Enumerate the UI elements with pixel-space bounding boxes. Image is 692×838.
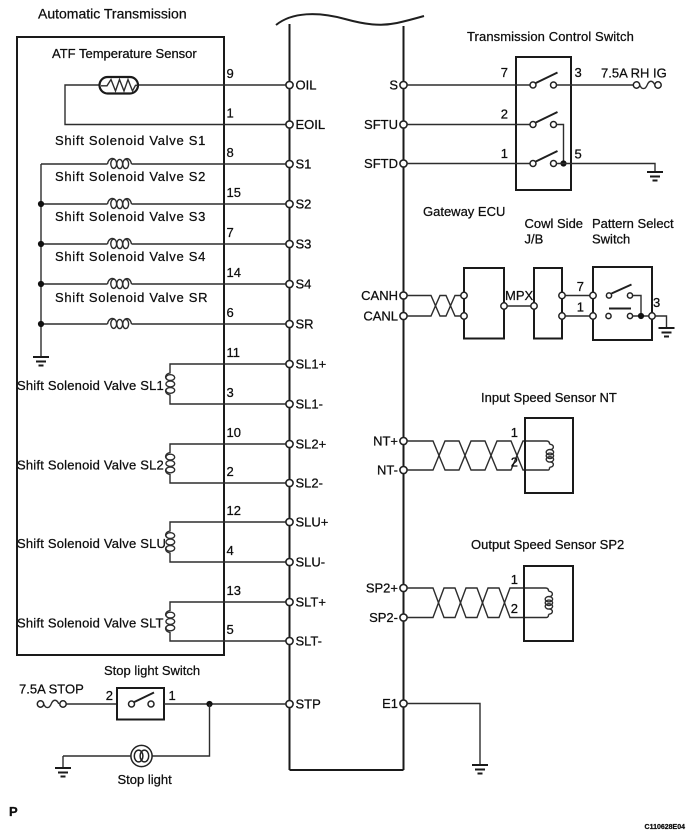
- svg-text:7: 7: [577, 279, 584, 294]
- svg-text:Stop light: Stop light: [118, 772, 173, 787]
- terminal SL2-: [286, 476, 323, 491]
- svg-text:Stop light Switch: Stop light Switch: [104, 663, 200, 678]
- svg-text:Switch: Switch: [592, 232, 630, 247]
- Output speed sensor SP2 box: [524, 566, 573, 641]
- svg-text:2: 2: [511, 455, 518, 470]
- Cowl Side J/B terminal (MPX in): [531, 303, 537, 309]
- svg-text:S1: S1: [296, 157, 312, 172]
- svg-text:11: 11: [227, 345, 241, 360]
- terminal SLU+: [286, 515, 328, 530]
- terminal SLU-: [286, 555, 325, 570]
- pattern select switch contact row 1 right: [627, 293, 632, 298]
- svg-text:SFTD: SFTD: [364, 156, 398, 171]
- solenoid coil S1 and wire to terminal S1: [41, 159, 286, 169]
- svg-text:OIL: OIL: [296, 78, 317, 93]
- svg-text:S4: S4: [296, 277, 312, 292]
- terminal SL1-: [286, 397, 323, 412]
- terminal SFTD: [364, 156, 407, 171]
- stop light bulb: [131, 745, 152, 766]
- wire: row2 contact to pin 3 terminal: [633, 315, 649, 317]
- terminal NT-: [377, 463, 407, 478]
- Cowl Side J/B terminal upper right: [559, 292, 565, 298]
- wire: junction down to stop light: [152, 704, 210, 756]
- svg-text:SL2-: SL2-: [296, 476, 323, 491]
- Automatic Transmission enclosure box: [17, 37, 224, 655]
- svg-text:SR: SR: [296, 317, 314, 332]
- svg-text:Shift Solenoid Valve S2: Shift Solenoid Valve S2: [55, 169, 206, 184]
- svg-text:SL2+: SL2+: [296, 437, 327, 452]
- wire: SFTU contact link down to SFTD row: [557, 125, 564, 164]
- label: Cowl Side J/B: [525, 216, 584, 247]
- wire: switch pin 5 to ground: [557, 164, 656, 172]
- svg-text:Automatic Transmission: Automatic Transmission: [38, 6, 187, 22]
- junction on ground bus at y=284: [38, 281, 44, 287]
- solenoid coil SLT with loop wires: [166, 602, 286, 641]
- svg-text:7.5A STOP: 7.5A STOP: [19, 682, 84, 697]
- wire: solenoid common ground bus: [40, 164, 42, 357]
- terminal SR: [286, 317, 314, 332]
- svg-text:Pattern Select: Pattern Select: [592, 216, 674, 231]
- svg-text:12: 12: [227, 503, 241, 518]
- pattern select switch terminal pin 7: [590, 292, 596, 298]
- ground: stop light: [55, 756, 71, 777]
- svg-text:S2: S2: [296, 197, 312, 212]
- svg-text:SL1-: SL1-: [296, 397, 323, 412]
- svg-text:Shift Solenoid Valve SLU: Shift Solenoid Valve SLU: [17, 536, 166, 551]
- wire: stop light to ground: [63, 755, 131, 757]
- svg-text:7.5A RH IG: 7.5A RH IG: [601, 66, 667, 81]
- svg-text:3: 3: [653, 295, 660, 310]
- terminal NT+: [373, 434, 407, 449]
- svg-text:Shift Solenoid Valve SR: Shift Solenoid Valve SR: [55, 290, 208, 305]
- Gateway ECU terminal (CANL): [461, 313, 467, 319]
- svg-text:5: 5: [227, 622, 234, 637]
- wire: SFTD to switch pin 1: [407, 163, 530, 165]
- terminal E1: [382, 696, 407, 711]
- svg-text:6: 6: [227, 305, 234, 320]
- switch contacts row 3: [530, 161, 536, 167]
- wire: fuse to stop light switch: [66, 703, 117, 705]
- wire: SFTU to switch pin 2: [407, 124, 530, 126]
- Cowl Side J/B box: [534, 268, 562, 339]
- svg-text:E1: E1: [382, 696, 398, 711]
- terminal CANL: [363, 309, 407, 324]
- svg-text:SLT-: SLT-: [296, 634, 323, 649]
- svg-text:CANH: CANH: [361, 288, 398, 303]
- pattern select switch contact row 2 right: [627, 313, 632, 318]
- Transmission Control Switch box: [516, 57, 571, 190]
- svg-text:S: S: [389, 78, 398, 93]
- svg-text:Shift Solenoid Valve S3: Shift Solenoid Valve S3: [55, 209, 206, 224]
- svg-text:MPX: MPX: [505, 288, 534, 303]
- NT sensor pickup coil: [546, 444, 553, 467]
- terminal CANH: [361, 288, 407, 303]
- wire: NT+ twisted pair: [407, 441, 550, 470]
- svg-text:SP2-: SP2-: [369, 610, 398, 625]
- terminal SFTU: [364, 117, 407, 132]
- ECU bottom edge wire: [290, 769, 404, 771]
- terminal S2: [286, 197, 312, 212]
- svg-text:ATF Temperature Sensor: ATF Temperature Sensor: [52, 46, 197, 61]
- thermistor (ATF temperature sensor element): [100, 77, 139, 94]
- svg-text:15: 15: [227, 185, 241, 200]
- svg-text:1: 1: [501, 146, 508, 161]
- svg-text:SFTU: SFTU: [364, 117, 398, 132]
- svg-text:Shift Solenoid Valve SLT: Shift Solenoid Valve SLT: [17, 616, 164, 631]
- stop light switch contacts: [129, 701, 135, 707]
- svg-text:Transmission Control Switch: Transmission Control Switch: [467, 29, 634, 44]
- terminal SP2-: [369, 610, 407, 625]
- svg-text:3: 3: [575, 65, 582, 80]
- svg-text:2: 2: [511, 601, 518, 616]
- svg-text:7: 7: [501, 65, 508, 80]
- wire: stop light switch to STP terminal: [164, 703, 286, 705]
- svg-text:3: 3: [227, 385, 234, 400]
- terminal SL2+: [286, 437, 326, 452]
- junction on ground bus at y=244: [38, 241, 44, 247]
- solenoid coil S4 and wire to terminal S4: [41, 279, 286, 289]
- junction on ground bus at y=324: [38, 321, 44, 327]
- ground: transmission control switch: [647, 172, 663, 181]
- svg-text:Gateway ECU: Gateway ECU: [423, 204, 505, 219]
- Gateway ECU box: [464, 268, 504, 339]
- junction: stop light tap: [206, 701, 212, 707]
- svg-text:Shift Solenoid Valve S1: Shift Solenoid Valve S1: [55, 133, 206, 148]
- svg-text:J/B: J/B: [525, 232, 544, 247]
- svg-text:C110628E04: C110628E04: [645, 824, 686, 831]
- svg-text:CANL: CANL: [363, 309, 398, 324]
- svg-text:Cowl Side: Cowl Side: [525, 216, 584, 231]
- svg-text:SLT+: SLT+: [296, 595, 326, 610]
- wire: switch pin 3 to fuse: [557, 84, 634, 86]
- switch contacts row 2: [530, 122, 536, 128]
- svg-text:NT+: NT+: [373, 434, 398, 449]
- svg-text:Shift Solenoid Valve SL1: Shift Solenoid Valve SL1: [17, 378, 164, 393]
- terminal S3: [286, 237, 312, 252]
- svg-text:P: P: [9, 804, 18, 819]
- ground: solenoid bus ground: [33, 357, 49, 366]
- Stop light switch box: [117, 688, 164, 720]
- svg-text:SLU+: SLU+: [296, 515, 329, 530]
- wire: CANH twisted pair: [407, 296, 461, 317]
- wire: thermistor to OIL terminal: [138, 84, 286, 86]
- label: Pattern Select Switch: [592, 216, 674, 247]
- svg-text:8: 8: [227, 145, 234, 160]
- switch contacts row 1: [530, 82, 536, 88]
- terminal SLT+: [286, 595, 326, 610]
- junction at switch pin 5: [560, 160, 566, 166]
- pattern select switch blade row 1: [612, 285, 632, 294]
- wire: cowl J/B to pattern select switch pin 1: [565, 315, 590, 317]
- svg-text:NT-: NT-: [377, 463, 398, 478]
- solenoid coil SLU with loop wires: [166, 522, 286, 562]
- svg-text:2: 2: [106, 688, 113, 703]
- svg-text:2: 2: [501, 107, 508, 122]
- svg-text:1: 1: [169, 688, 176, 703]
- svg-text:7: 7: [227, 225, 234, 240]
- wire: pattern select pin 3 to ground: [655, 316, 666, 328]
- svg-text:EOIL: EOIL: [296, 117, 326, 132]
- wire: CANL twisted pair: [407, 296, 461, 317]
- terminal S1: [286, 157, 312, 172]
- svg-text:5: 5: [575, 147, 582, 162]
- solenoid coil SL2 with loop wires: [166, 444, 286, 483]
- pattern select switch contact row 2 left: [606, 313, 611, 318]
- svg-text:4: 4: [227, 543, 234, 558]
- fuse 7.5A STOP: [37, 700, 66, 707]
- Gateway ECU terminal (MPX out): [501, 303, 507, 309]
- svg-text:Shift Solenoid Valve SL2: Shift Solenoid Valve SL2: [17, 458, 164, 473]
- terminal EOIL: [286, 117, 325, 132]
- svg-text:1: 1: [511, 572, 518, 587]
- Gateway ECU terminal (CANH): [461, 292, 467, 298]
- svg-text:SLU-: SLU-: [296, 555, 326, 570]
- wire: row1 contact link down to row 2: [633, 296, 641, 317]
- wire: NT- twisted pair: [407, 441, 550, 470]
- switch blade row 2: [536, 112, 558, 123]
- switch blade row 3: [536, 151, 558, 162]
- pattern select switch terminal pin 3: [649, 313, 655, 319]
- svg-text:SL1+: SL1+: [296, 357, 327, 372]
- svg-text:S3: S3: [296, 237, 312, 252]
- ground: E1: [472, 765, 488, 774]
- wire: thermistor loop to EOIL terminal: [65, 85, 286, 125]
- solenoid coil SL1 with loop wires: [166, 364, 286, 404]
- switch blade row 1: [536, 73, 558, 84]
- wire: SP2- twisted pair: [407, 588, 549, 618]
- pattern select switch blade row 2 (open, horizontal): [609, 308, 631, 310]
- wire: S to switch pin 7: [407, 84, 530, 86]
- pattern select switch contact row 1 left: [606, 293, 611, 298]
- junction at pattern select pin 3: [638, 313, 644, 319]
- terminal SLT-: [286, 634, 322, 649]
- SP2 sensor pickup coil: [545, 591, 552, 614]
- wire: cowl J/B to pattern select switch pin 7: [565, 295, 590, 297]
- solenoid coil SR and wire to terminal SR: [41, 319, 286, 329]
- svg-text:13: 13: [227, 583, 241, 598]
- pattern select switch terminal pin 1: [590, 313, 596, 319]
- fuse 7.5A RH IG: [633, 81, 661, 88]
- svg-text:Shift Solenoid Valve S4: Shift Solenoid Valve S4: [55, 249, 206, 264]
- Pattern Select Switch box: [593, 267, 652, 340]
- svg-text:Input Speed Sensor NT: Input Speed Sensor NT: [481, 390, 617, 405]
- wire MPX: gateway to cowl side J/B: [507, 305, 531, 307]
- terminal STP: [286, 697, 321, 712]
- ECU right bus line: [403, 26, 405, 770]
- Cowl Side J/B terminal lower right: [559, 313, 565, 319]
- svg-text:10: 10: [227, 425, 241, 440]
- terminal OIL: [286, 78, 317, 93]
- ground: pattern select switch: [659, 328, 675, 337]
- svg-text:1: 1: [227, 106, 234, 121]
- Input speed sensor NT box: [525, 418, 573, 493]
- stop light switch blade: [134, 693, 154, 703]
- junction on ground bus at y=204: [38, 201, 44, 207]
- svg-text:2: 2: [227, 464, 234, 479]
- ECU left bus line: [289, 24, 291, 770]
- svg-text:9: 9: [227, 66, 234, 81]
- terminal SP2+: [366, 581, 407, 596]
- terminal S: [389, 78, 407, 93]
- solenoid coil S2 and wire to terminal S2: [41, 199, 286, 209]
- solenoid coil S3 and wire to terminal S3: [41, 239, 286, 249]
- terminal S4: [286, 277, 312, 292]
- wire: E1 to ground: [407, 704, 480, 765]
- svg-text:Output Speed Sensor SP2: Output Speed Sensor SP2: [471, 537, 624, 552]
- ECU top continuation break (wavy line): [276, 14, 424, 25]
- svg-text:SP2+: SP2+: [366, 581, 398, 596]
- svg-text:1: 1: [511, 425, 518, 440]
- terminal SL1+: [286, 357, 326, 372]
- wire: SP2+ twisted pair: [407, 588, 549, 618]
- svg-text:STP: STP: [296, 697, 321, 712]
- svg-text:14: 14: [227, 265, 241, 280]
- svg-text:1: 1: [577, 300, 584, 315]
